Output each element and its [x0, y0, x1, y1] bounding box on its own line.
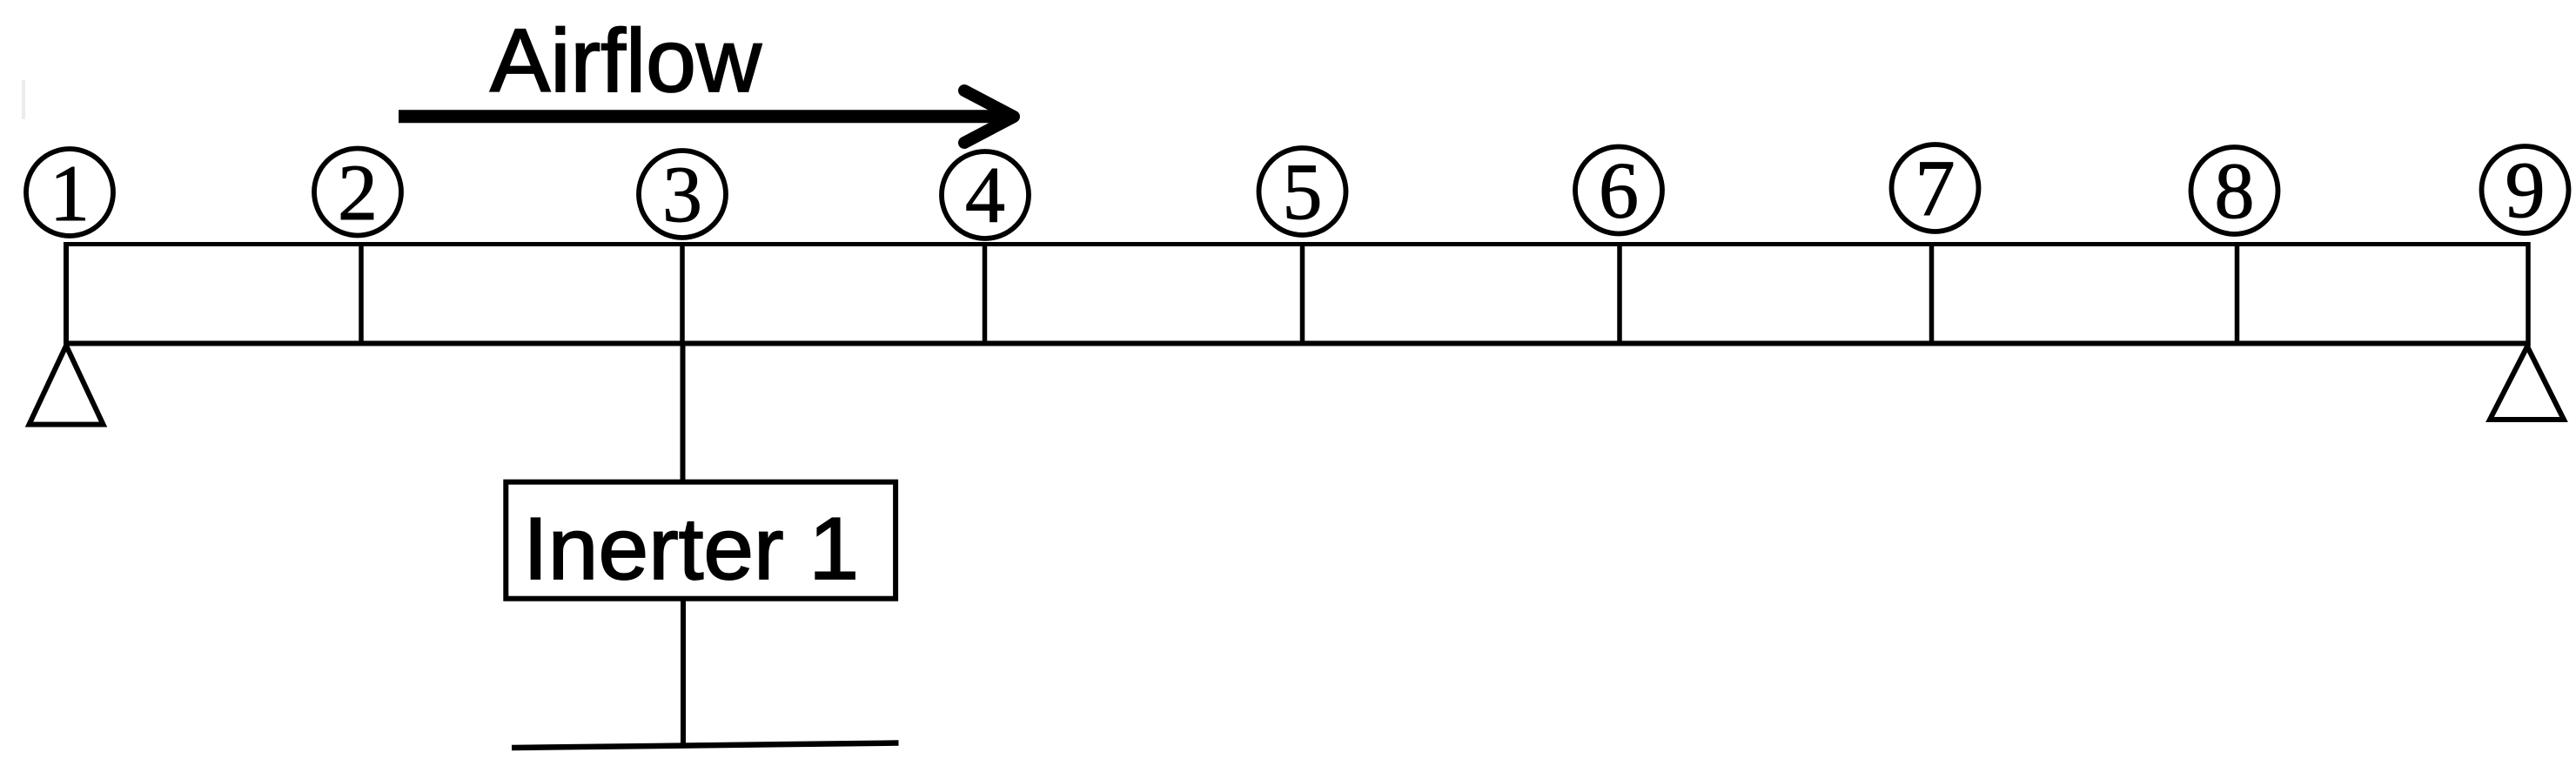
node 4 label — [942, 151, 1029, 239]
ground line — [512, 743, 899, 749]
pin support node 9 — [2490, 346, 2564, 420]
node 8 tick — [2235, 244, 2240, 343]
inerter I1 box — [506, 482, 896, 599]
node 7 tick — [1929, 244, 1935, 343]
beam top chord — [66, 242, 2528, 246]
node 2 tick — [359, 244, 364, 343]
svg-text:Inerter 1: Inerter 1 — [523, 501, 859, 598]
node 8 label — [2191, 146, 2278, 235]
inerter stem upper — [681, 343, 686, 481]
node 6 label — [1575, 146, 1662, 235]
node 9 label — [2482, 145, 2569, 234]
svg-text:6: 6 — [1599, 146, 1639, 235]
svg-text:2: 2 — [338, 148, 378, 237]
beam bottom chord — [66, 341, 2528, 346]
beam left end post node 1 — [64, 242, 69, 345]
node 5 tick — [1300, 244, 1305, 343]
airflow arrowhead — [964, 91, 1014, 143]
svg-text:Airflow: Airflow — [490, 10, 762, 111]
node 6 tick — [1617, 244, 1622, 343]
node 4 tick — [983, 244, 988, 343]
airflow arrow shaft — [399, 110, 1010, 123]
svg-text:9: 9 — [2506, 145, 2546, 234]
svg-text:8: 8 — [2215, 146, 2255, 235]
node 3 label — [639, 150, 726, 239]
node 2 label — [314, 148, 401, 237]
node 1 label — [26, 149, 113, 238]
scan artifact smudge — [22, 80, 25, 119]
node 3 tick — [680, 244, 685, 343]
node 5 label — [1259, 147, 1346, 236]
svg-text:5: 5 — [1283, 147, 1323, 236]
pin support node 1 — [30, 346, 104, 425]
node 7 label — [1892, 144, 1979, 232]
svg-text:4: 4 — [965, 151, 1005, 239]
svg-text:1: 1 — [50, 149, 90, 238]
inerter stem lower — [681, 601, 686, 746]
svg-text:3: 3 — [662, 150, 702, 239]
beam right end post node 9 — [2526, 242, 2531, 346]
svg-text:7: 7 — [1915, 144, 1955, 232]
